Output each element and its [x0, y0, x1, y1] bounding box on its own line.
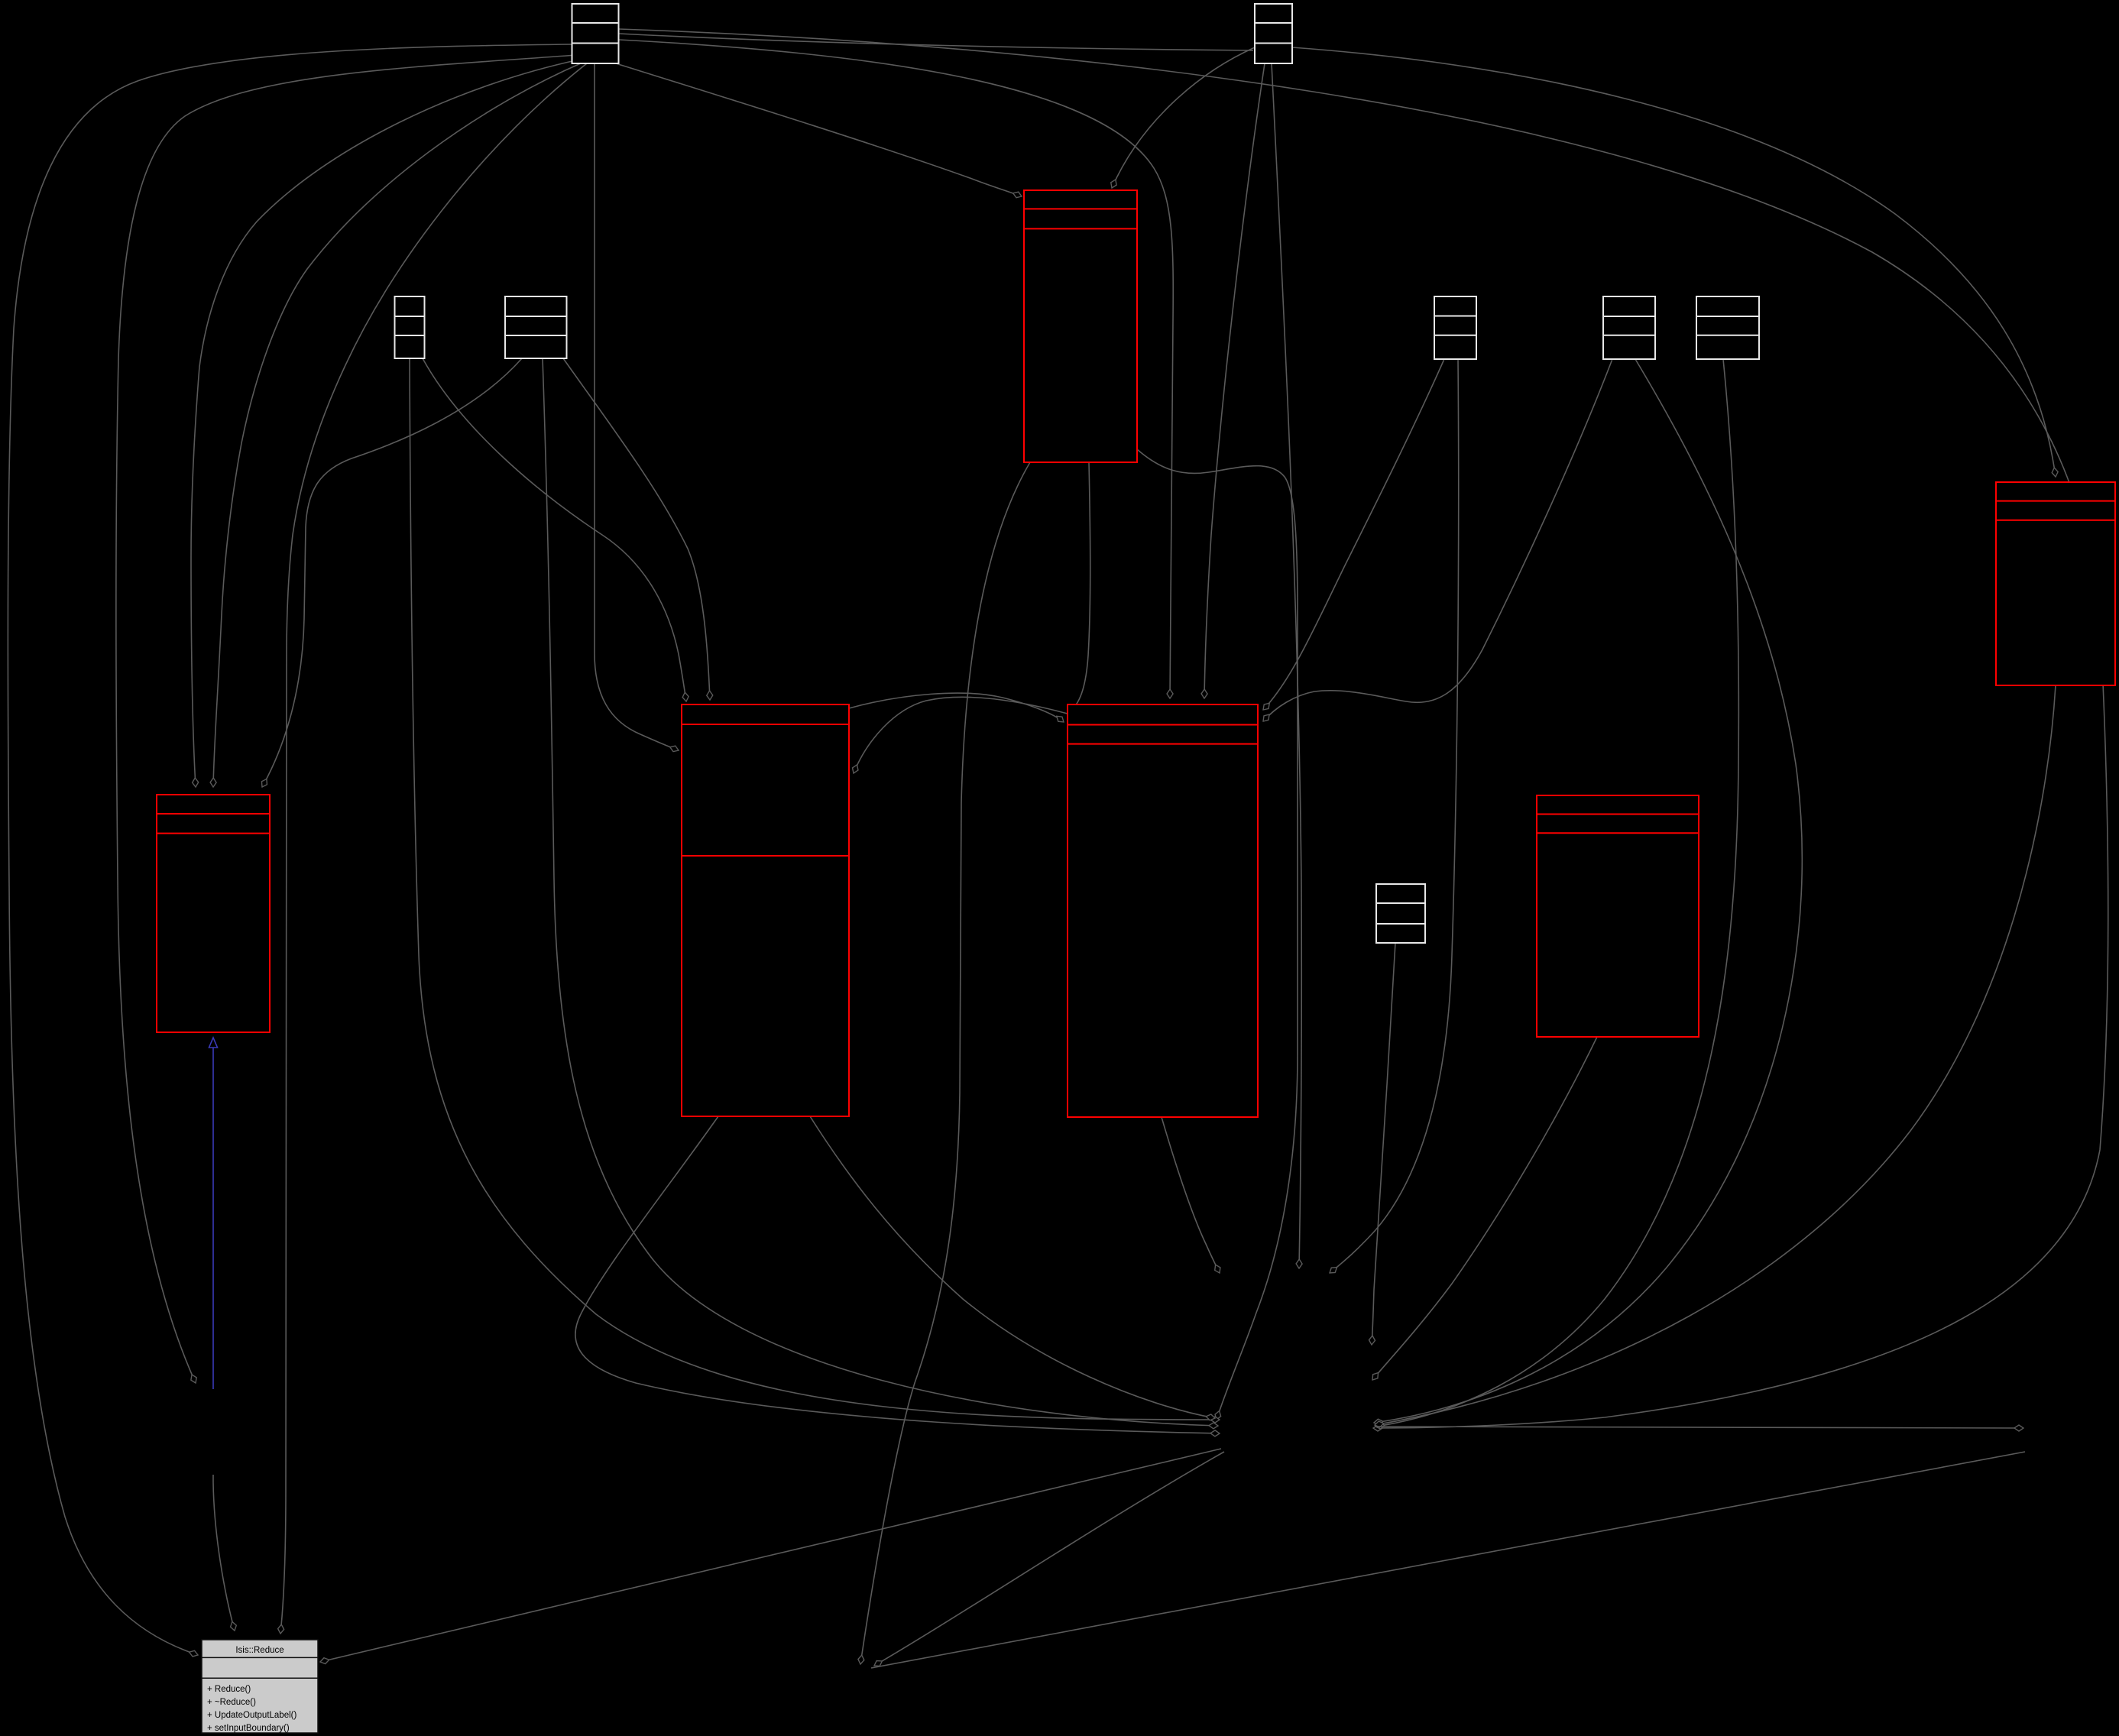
edge T2 to R1 top — [1112, 47, 1255, 188]
class box B (row2 white) — [505, 296, 567, 358]
edge D to I right edge via wavy bus — [1263, 359, 1612, 721]
edge T2 to F top — [1292, 47, 2056, 477]
edge G bottom-left S-curve to hub1 — [575, 1116, 1220, 1433]
class box F (red, far right) — [1996, 482, 2115, 685]
edge F to hub2 — [1375, 685, 2056, 1425]
edge C to I right edge (upper) — [1263, 359, 1444, 710]
edge T1 to R1 left edge — [616, 63, 1022, 196]
edge gray feeder to Isis::Reduce top-left — [213, 1475, 235, 1631]
edge B to hub1 — [543, 358, 1218, 1426]
edge G to I left edge (wavy bus) — [849, 693, 1064, 722]
edge I bottom to diamond above hub1 (left) — [1162, 1117, 1220, 1273]
class box J (red, right) — [1537, 795, 1699, 1037]
svg-text:+ setInputBoundary(): + setInputBoundary() — [207, 1724, 290, 1733]
edge T1 to hub2 (outer right margin arc) — [619, 29, 2108, 1428]
edge I to G right edge (wavy bus) — [854, 697, 1068, 773]
edge R1 bottom-right wavy bus then down to diamond above hub1 — [1137, 449, 1298, 1420]
svg-text:+ UpdateOutputLabel(): + UpdateOutputLabel() — [207, 1711, 296, 1720]
edge T2 vertical to diamond above hub1 — [1272, 63, 1301, 1268]
edge B to G top-right — [563, 358, 710, 700]
class box I (red, mid-right) — [1068, 704, 1258, 1117]
edge K to diamond above hub2 — [1372, 943, 1395, 1345]
edge T1 to I top-left (arc through upper right) — [619, 40, 1173, 698]
class box D (row2 right white) — [1603, 296, 1655, 359]
edge hub1 to floating diamond bottom-left — [874, 1452, 1224, 1666]
edge A to G top-left — [423, 358, 686, 701]
edge R1 to I left edge — [1070, 462, 1090, 711]
svg-text:+ Reduce(): + Reduce() — [207, 1685, 251, 1694]
edge E to hub2 — [1375, 359, 1738, 1427]
class box C (row2 right white) — [1434, 296, 1476, 359]
inheritance arrow Isis::Reduce to H (blue) — [212, 1038, 214, 1389]
edge from far-right invisible node to floating junction (long shallow line) — [871, 1452, 2025, 1668]
class box A (row2 white) — [395, 296, 425, 358]
class box K (small white) — [1376, 884, 1425, 943]
class box H (red, left) — [157, 795, 270, 1032]
edge T1 to G left edge — [595, 63, 679, 750]
edge T1 to H top-right — [213, 63, 582, 787]
svg-text:+ ~Reduce(): + ~Reduce() — [207, 1698, 256, 1707]
class box G (red, mid-left) — [682, 704, 849, 1116]
edge hub2 to floating diamond right — [1375, 1427, 2023, 1428]
svg-text:Isis::Reduce: Isis::Reduce — [235, 1646, 284, 1655]
edge R1 bottom-left long descender to floating junction — [860, 462, 1030, 1664]
edge T1 to T2 (top horizontal) — [619, 34, 1253, 50]
edge G bottom-right to hub1 — [810, 1116, 1215, 1418]
edge hub1 to Isis::Reduce right edge — [320, 1449, 1221, 1662]
class box T1 (top-left white) — [572, 4, 619, 63]
class box R1 (red, top middle) — [1024, 190, 1137, 462]
edge T1 to Isis::Reduce top-right (long mid vertical) — [280, 63, 587, 1634]
edge T1 to H top-left — [191, 60, 579, 787]
edge T2 to I top-right — [1204, 63, 1265, 698]
class box E (row2 right white) — [1696, 296, 1759, 359]
class box Isis::Reduce (bottom, filled) — [202, 1640, 318, 1733]
edge A to hub1 — [410, 358, 1220, 1420]
class box T2 (top-right white) — [1255, 4, 1292, 63]
edge D to hub2 — [1374, 359, 1802, 1423]
edge T1 to Isis::Reduce left side (outer left arc) — [8, 44, 575, 1655]
edge C to diamond above hub1 (right) — [1330, 359, 1459, 1273]
edge B to H top tilted diamond (left bus) — [262, 358, 522, 787]
edge J to diamond above hub2 — [1372, 1037, 1597, 1380]
edge T1 to floating diamond above Isis (second left arc) — [116, 55, 576, 1383]
